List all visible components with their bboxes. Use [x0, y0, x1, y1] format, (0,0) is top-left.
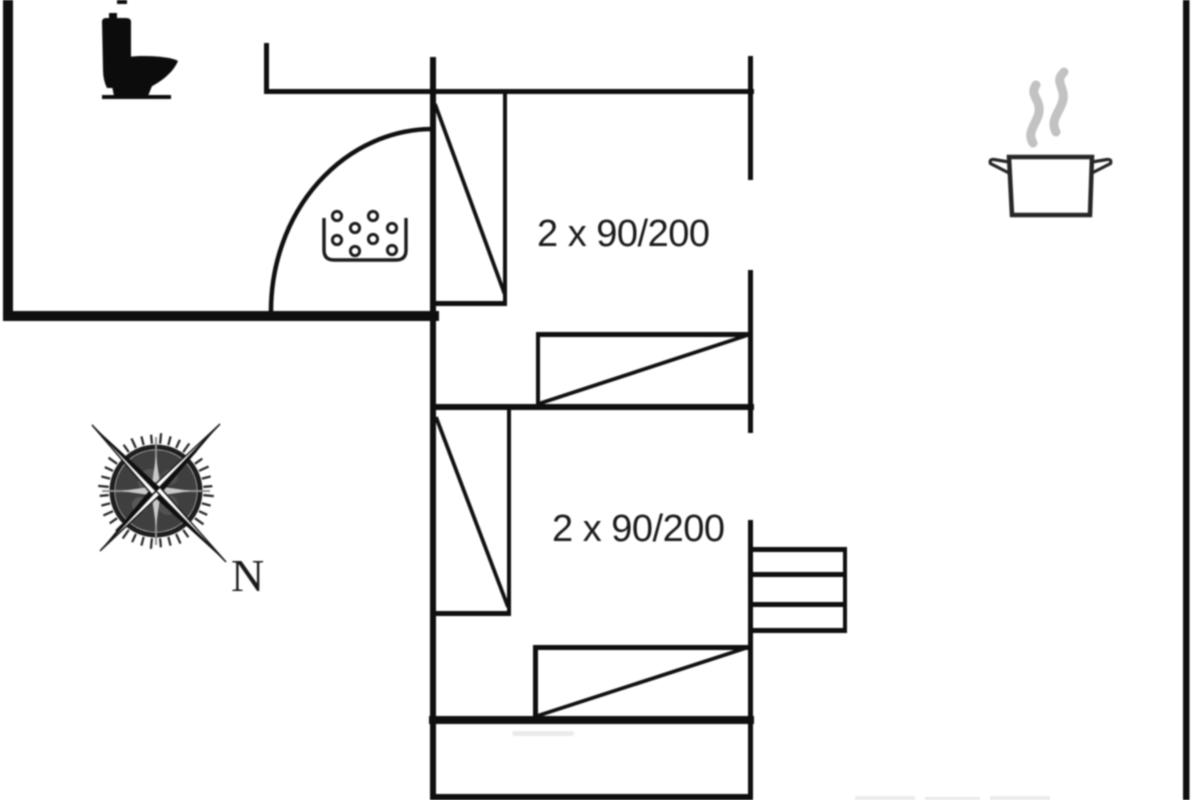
svg-text:2 x 90/200: 2 x 90/200: [552, 508, 724, 550]
svg-text:N: N: [231, 550, 264, 601]
svg-text:2 x 90/200: 2 x 90/200: [537, 213, 709, 255]
